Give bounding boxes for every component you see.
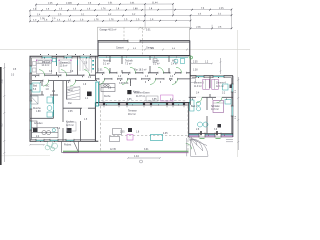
svg-text:3.38 5.01: 3.38 5.01 (119, 83, 129, 85)
svg-text:Bad 2: Bad 2 (191, 106, 198, 108)
svg-text:12.6 m²: 12.6 m² (66, 124, 74, 127)
svg-text:Flur 18.5 m²: Flur 18.5 m² (134, 69, 147, 72)
svg-text:1.76: 1.76 (101, 8, 106, 10)
svg-text:WC: WC (46, 86, 50, 88)
svg-text:Kochen: Kochen (66, 122, 75, 124)
svg-text:11.44: 11.44 (152, 2, 158, 4)
svg-text:2.25: 2.25 (219, 8, 224, 10)
svg-text:3.1 m²: 3.1 m² (153, 63, 160, 66)
svg-text:12.8 m²: 12.8 m² (60, 65, 68, 68)
svg-text:12.1 m²: 12.1 m² (216, 85, 224, 88)
svg-text:2.35: 2.35 (193, 62, 198, 64)
svg-text:14.6 m²: 14.6 m² (211, 108, 219, 111)
svg-text:3.55: 3.55 (152, 99, 157, 101)
svg-text:2.4 m²: 2.4 m² (171, 63, 178, 66)
svg-text:1.76: 1.76 (94, 19, 99, 21)
svg-text:Dusche: Dusche (33, 108, 42, 110)
svg-text:1.76: 1.76 (109, 19, 114, 21)
svg-text:1.88: 1.88 (36, 111, 41, 113)
svg-text:Garage 40.5 m²: Garage 40.5 m² (100, 29, 117, 32)
svg-text:48.2 m²: 48.2 m² (128, 113, 136, 116)
svg-text:2.51: 2.51 (108, 3, 113, 5)
svg-text:WC: WC (172, 61, 176, 63)
svg-text:7.3 m²: 7.3 m² (125, 63, 132, 66)
svg-text:41.97 m²: 41.97 m² (136, 95, 145, 98)
svg-text:Technik: Technik (125, 61, 134, 63)
svg-text:Küche: Küche (104, 96, 111, 98)
svg-text:3.55: 3.55 (127, 99, 132, 101)
svg-text:2.485: 2.485 (66, 3, 72, 5)
svg-text:Arbeiten: Arbeiten (34, 122, 43, 125)
svg-text:1.38: 1.38 (193, 70, 198, 72)
svg-text:5.01: 5.01 (146, 30, 151, 32)
svg-text:Zimmer 4: Zimmer 4 (216, 82, 226, 85)
svg-text:14.2 m²: 14.2 m² (42, 64, 50, 67)
svg-text:Speis: Speis (153, 61, 160, 63)
svg-text:Abstellr.: Abstellr. (103, 60, 112, 63)
svg-text:Zimmer 3: Zimmer 3 (194, 82, 204, 85)
svg-text:1.36: 1.36 (40, 18, 45, 20)
svg-text:Kamin: Kamin (133, 92, 140, 94)
svg-text:11.9 m²: 11.9 m² (194, 85, 202, 88)
svg-text:2.05: 2.05 (120, 132, 125, 134)
svg-text:Zimmer 1: Zimmer 1 (42, 61, 52, 64)
svg-text:1.44: 1.44 (134, 155, 139, 158)
svg-text:5.1 m²: 5.1 m² (103, 63, 110, 66)
svg-text:Bad: Bad (33, 86, 38, 88)
svg-text:2.35: 2.35 (48, 3, 53, 5)
svg-text:1.88: 1.88 (133, 8, 138, 10)
svg-text:12.35: 12.35 (110, 149, 116, 151)
svg-text:4.05: 4.05 (163, 133, 168, 135)
svg-text:Podest: Podest (64, 144, 72, 147)
svg-text:Terrasse: Terrasse (128, 110, 138, 113)
svg-text:2.01: 2.01 (98, 70, 103, 72)
svg-text:Flur: Flur (68, 102, 72, 105)
svg-text:3.01: 3.01 (130, 2, 135, 4)
svg-text:2.35: 2.35 (68, 111, 73, 113)
svg-text:Schlafen: Schlafen (211, 106, 221, 108)
svg-text:Garage: Garage (146, 47, 154, 50)
svg-text:Zimmer 2: Zimmer 2 (60, 62, 70, 65)
svg-text:2.35: 2.35 (196, 27, 201, 29)
svg-text:Abst.: Abst. (68, 89, 74, 92)
svg-text:Carport: Carport (116, 47, 124, 50)
svg-text:3.01: 3.01 (144, 149, 149, 151)
